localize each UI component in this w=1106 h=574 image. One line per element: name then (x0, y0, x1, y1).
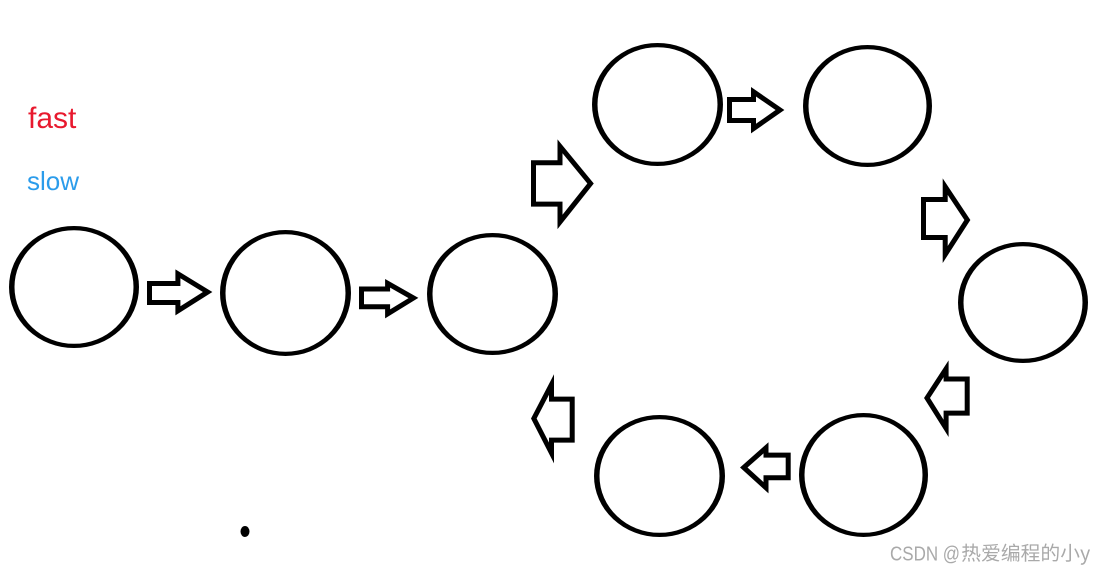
node 1 (list head) (9, 226, 139, 348)
node 6 (cycle right) (958, 242, 1088, 363)
node 3 (cycle entry) (427, 233, 558, 355)
arrow node2->node3 (right) (359, 279, 418, 318)
arrow node6->node7 (left) (924, 360, 970, 437)
node 5 (cycle top-right) (803, 45, 932, 167)
svg-text:CSDN @: CSDN @ (890, 543, 960, 565)
arrow node1->node2 (right) (147, 269, 212, 315)
arrow node4->node5 (right) (727, 87, 784, 133)
arrow node8->node3 (left) (531, 374, 575, 463)
node 7 (cycle bottom-right) (799, 413, 928, 537)
node 8 (cycle bottom) (594, 415, 725, 537)
arrow node3->node4 (right) (531, 139, 594, 229)
stray ink dot (241, 526, 250, 537)
arrow node5->node6 (right) (921, 178, 970, 263)
node 2 (220, 230, 351, 356)
label fast (fast pointer legend) (28, 104, 76, 134)
watermark CSDN @... (890, 543, 1090, 565)
node 4 (cycle top-left) (592, 43, 723, 166)
label slow (slow pointer legend) (27, 168, 79, 194)
arrow node7->node8 (left) (740, 442, 791, 493)
